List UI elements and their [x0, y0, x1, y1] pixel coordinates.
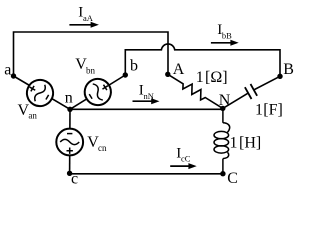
- node b: [123, 72, 128, 77]
- capacitor wire B side: [254, 76, 280, 90]
- label InN: [139, 82, 154, 101]
- current arrow IcC: [170, 163, 197, 169]
- svg-text:c: c: [71, 171, 78, 188]
- wire n to source Vcn to c (vertical): [69, 109, 71, 174]
- svg-text:n: n: [65, 90, 73, 107]
- capacitor plate 1: [245, 87, 252, 99]
- resistor R 1 ohm between A and N: [168, 74, 223, 108]
- label IaA: [78, 4, 93, 22]
- inductor L 1 H between N and C: [214, 108, 230, 173]
- wire a to source Van to n (diagonal): [14, 76, 71, 109]
- svg-text:1[F]: 1[F]: [255, 102, 283, 119]
- svg-text:cn: cn: [98, 143, 107, 153]
- node N: [220, 106, 225, 111]
- svg-text:a: a: [4, 61, 11, 78]
- svg-text:an: an: [28, 111, 37, 121]
- svg-text:1[H]: 1[H]: [230, 135, 262, 152]
- svg-text:A: A: [173, 61, 185, 78]
- source Van: [22, 75, 58, 111]
- node c: [67, 171, 72, 176]
- wire n to source Vbn to b (diagonal): [70, 75, 125, 109]
- label IbB: [217, 22, 232, 40]
- source Vcn: [56, 129, 83, 156]
- label IcC: [176, 145, 190, 163]
- wire c to C: [70, 173, 223, 175]
- svg-text:nN: nN: [144, 91, 154, 101]
- wire a to A (a riser, top run, drop to A): [14, 32, 169, 76]
- svg-text:C: C: [227, 170, 238, 187]
- svg-text:cC: cC: [181, 154, 191, 164]
- svg-text:aA: aA: [83, 13, 94, 23]
- node a: [11, 73, 16, 78]
- wire b to B with hop over A drop: [125, 44, 280, 76]
- label Van: [18, 102, 38, 121]
- capacitor C 1 F between N and B: wire N side: [223, 93, 248, 108]
- node A: [165, 72, 170, 77]
- svg-text:1[Ω]: 1[Ω]: [196, 69, 228, 86]
- source Vbn: [80, 74, 116, 110]
- wire n to N: [70, 108, 223, 110]
- node n: [67, 107, 72, 112]
- current arrow InN: [133, 98, 160, 104]
- svg-text:bB: bB: [222, 30, 232, 40]
- label Vbn: [75, 56, 95, 76]
- current arrow IbB: [211, 40, 239, 46]
- svg-text:B: B: [283, 61, 294, 78]
- node C: [220, 171, 225, 176]
- label Vcn: [87, 134, 107, 153]
- svg-text:b: b: [130, 58, 138, 75]
- svg-text:bn: bn: [86, 65, 96, 75]
- capacitor plate 2: [251, 84, 258, 96]
- node B: [277, 74, 282, 79]
- svg-text:N: N: [219, 92, 231, 109]
- current arrow IaA: [69, 22, 99, 28]
